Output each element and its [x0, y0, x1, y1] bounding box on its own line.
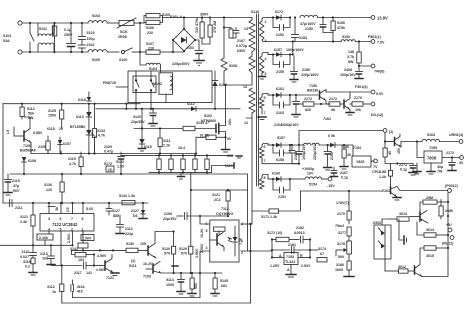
svg-text:1600: 1600	[335, 268, 343, 272]
svg-text:2153: 2153	[299, 36, 307, 40]
svg-text:7162: 7162	[323, 117, 331, 121]
svg-text:7W: 7W	[437, 170, 443, 174]
svg-text:100μ/16V: 100μ/16V	[340, 73, 356, 77]
capacitor C2181	[271, 243, 311, 254]
svg-text:D/L(12): D/L(12)	[371, 113, 384, 117]
transistor Q7106 BU508AF	[6, 117, 43, 154]
snubber branch	[223, 16, 247, 58]
svg-text:2111: 2111	[15, 206, 23, 210]
svg-text:5: 5	[264, 96, 266, 100]
svg-text:3178: 3178	[337, 242, 345, 246]
svg-text:3111: 3111	[163, 139, 171, 143]
svg-text:6172: 6172	[275, 10, 283, 14]
svg-text:6157: 6157	[274, 48, 282, 52]
wire vcc cap branch	[44, 173, 64, 204]
capacitor C2408 100u/16V	[340, 66, 363, 79]
svg-text:6115: 6115	[144, 145, 152, 149]
resistor R2170 10k	[350, 92, 371, 112]
capacitor C2159	[324, 145, 334, 170]
svg-text:2115: 2115	[12, 179, 20, 183]
resistor R3142 104	[70, 247, 95, 262]
svg-text:100μ: 100μ	[87, 37, 95, 41]
svg-text:3133: 3133	[97, 129, 105, 133]
gate resistor R3135 47	[134, 108, 216, 131]
svg-text:4.7k: 4.7k	[69, 162, 76, 166]
svg-text:2102: 2102	[87, 43, 95, 47]
terminal (2)	[383, 129, 394, 134]
wire feedback left	[0, 236, 34, 252]
svg-text:2170: 2170	[337, 212, 345, 216]
resistor R3012	[385, 265, 415, 273]
svg-text:4.7k: 4.7k	[98, 134, 105, 138]
label (2) 5111	[129, 259, 153, 268]
svg-text:150: 150	[397, 148, 401, 154]
svg-text:5123: 5123	[87, 31, 95, 35]
svg-text:R: R	[300, 254, 303, 258]
inductor L5103	[88, 14, 107, 23]
svg-text:3186: 3186	[341, 145, 349, 149]
svg-text:2171: 2171	[399, 163, 407, 167]
wire frame bottom	[62, 302, 251, 304]
svg-text:26V: 26V	[228, 118, 232, 125]
svg-text:+1000μ: +1000μ	[302, 167, 314, 171]
svg-text:1500: 1500	[48, 114, 56, 118]
wire TL431 verticals	[271, 238, 311, 258]
wire 16.2V link	[199, 260, 201, 298]
svg-text:3: 3	[265, 39, 267, 43]
svg-text:0.027: 0.027	[20, 255, 29, 259]
capacitor C2150	[320, 16, 333, 32]
svg-text:6107: 6107	[63, 142, 71, 146]
resistor R3186 30	[340, 144, 351, 169]
resistor R3112	[52, 264, 64, 303]
svg-text:3120: 3120	[133, 115, 141, 119]
resistor R3174 67	[317, 247, 327, 262]
terminal 740(8)	[371, 64, 385, 73]
rectifier D6172 + snubber C2152	[268, 10, 291, 37]
resistor R3133 4.7k	[92, 103, 105, 154]
svg-text:7154: 7154	[353, 146, 361, 150]
wire top rail to thermistor	[107, 22, 119, 24]
wire opto top feed	[382, 219, 390, 225]
svg-text:2182: 2182	[296, 226, 304, 230]
wire rail B	[268, 41, 341, 43]
capacitor C on vcc	[118, 152, 125, 174]
svg-text:220μ/400V: 220μ/400V	[172, 62, 190, 66]
transistor Q upper PNP	[410, 211, 428, 224]
svg-text:5152: 5152	[342, 35, 350, 39]
svg-text:1000: 1000	[166, 283, 174, 287]
svg-text:6161: 6161	[276, 87, 284, 91]
zener D6113	[76, 103, 92, 126]
svg-text:310 470k: 310 470k	[195, 18, 199, 33]
capacitor C2171 0.1u	[399, 163, 417, 175]
svg-text:6: 6	[60, 217, 62, 221]
label 1.06V pin1	[81, 235, 94, 241]
svg-text:6118: 6118	[78, 98, 86, 102]
node 5172 (4)	[104, 162, 114, 172]
svg-text:470k: 470k	[337, 26, 345, 30]
wire W2 to rail B	[292, 40, 294, 55]
wire y250 rail	[72, 249, 127, 251]
svg-text:7106: 7106	[23, 144, 31, 148]
svg-text:Y825: Y825	[356, 160, 364, 164]
resistor R148 3.7k 5W	[347, 42, 371, 68]
inductor L5104	[140, 52, 160, 73]
svg-text:3012: 3012	[398, 265, 406, 269]
ground source	[222, 137, 230, 152]
optocoupler U6303	[373, 221, 391, 271]
svg-text:0.1μ: 0.1μ	[64, 28, 71, 32]
svg-text:2: 2	[265, 57, 267, 61]
svg-text:0.1μ: 0.1μ	[400, 168, 407, 172]
svg-text:5132: 5132	[116, 160, 124, 164]
wire frame right vertical	[249, 223, 251, 303]
wire 350V rail	[168, 17, 186, 19]
resistor R5156 470k	[331, 16, 345, 42]
svg-text:13.8V: 13.8V	[377, 16, 388, 21]
svg-text:5.0V: 5.0V	[376, 92, 384, 96]
svg-text:570: 570	[181, 252, 187, 256]
svg-text:7150: 7150	[309, 84, 317, 88]
svg-text:6158: 6158	[276, 158, 284, 162]
svg-text:2R08: 2R08	[118, 35, 127, 39]
resistor R3125 1500	[48, 103, 64, 128]
svg-text:22μ/35V: 22μ/35V	[163, 217, 177, 221]
svg-text:740(8): 740(8)	[374, 70, 385, 74]
svg-text:3?8 2M: 3?8 2M	[213, 21, 217, 33]
svg-text:0.1μ: 0.1μ	[341, 176, 348, 180]
wire ground bus A	[73, 297, 200, 299]
regulator U7155 7808	[417, 142, 460, 164]
svg-text:30: 30	[347, 153, 351, 157]
svg-text:3014: 3014	[426, 228, 434, 232]
wire y245.3 extension	[33, 244, 73, 246]
resistor R2086	[439, 200, 453, 220]
transistor Q7158	[385, 134, 401, 154]
vertical link	[139, 23, 141, 52]
svg-text:7103: 7103	[143, 275, 151, 279]
resistor R550	[188, 273, 198, 296]
svg-text:6115: 6115	[47, 127, 55, 131]
resistor R5171 1.3k	[252, 209, 300, 224]
wire feedback winding down	[251, 118, 253, 213]
svg-text:S110: S110	[251, 10, 259, 14]
svg-text:5108: 5108	[229, 64, 237, 68]
wire rail A to 13.8V	[318, 17, 371, 19]
rectifier D6161 + snubber C2163	[268, 87, 296, 115]
svg-text:45: 45	[388, 151, 392, 155]
resistor R5145 681	[211, 273, 228, 296]
zener D6108	[22, 157, 36, 174]
svg-text:885: 885	[113, 214, 119, 218]
svg-text:2107: 2107	[237, 39, 245, 43]
transistor Q lower	[415, 262, 449, 277]
svg-text:3115: 3115	[23, 260, 31, 264]
svg-text:6: 6	[264, 145, 266, 149]
svg-text:2150: 2150	[305, 27, 313, 31]
svg-text:10k: 10k	[355, 108, 361, 112]
wire right rail	[447, 192, 449, 262]
inductor L5163	[422, 133, 459, 142]
svg-text:6303: 6303	[373, 221, 381, 225]
svg-text:TL431: TL431	[285, 260, 295, 264]
ground 608	[227, 154, 242, 158]
svg-text:7808: 7808	[427, 156, 437, 161]
svg-text:0.88V: 0.88V	[33, 131, 43, 135]
svg-text:6110: 6110	[225, 164, 233, 168]
capacitor C2113 102	[40, 244, 55, 264]
svg-text:E101-A: E101-A	[170, 15, 183, 19]
capacitor C2108 22u/35V	[163, 212, 229, 221]
svg-text:2158: 2158	[294, 152, 298, 160]
svg-text:47μ: 47μ	[13, 184, 19, 188]
diode D6156	[328, 134, 335, 147]
wire aux rail B	[96, 108, 240, 110]
resistor R3015	[420, 246, 448, 264]
svg-text:2.16k: 2.16k	[39, 236, 48, 240]
svg-text:+5√: +5√	[446, 223, 452, 227]
svg-text:2163: 2163	[276, 111, 284, 115]
svg-text:570: 570	[164, 252, 170, 256]
svg-text:3121: 3121	[212, 193, 220, 197]
svg-text:7: 7	[71, 217, 73, 221]
svg-text:16V: 16V	[307, 172, 314, 176]
svg-text:CQY80NG: CQY80NG	[216, 212, 233, 216]
resistor R bias	[383, 142, 392, 164]
svg-text:5101: 5101	[39, 27, 47, 31]
svg-text:25: 25	[59, 127, 63, 131]
rectifier D6157 + snubber C2155	[268, 48, 292, 74]
svg-text:7112: 7112	[221, 207, 229, 211]
zener D6115	[139, 129, 152, 152]
svg-text:3174: 3174	[318, 247, 326, 251]
snubber resistor bank	[121, 154, 233, 179]
X capacitor 0.1u 250V	[64, 22, 76, 53]
svg-text:3164: 3164	[77, 285, 85, 289]
transistor Q7121	[94, 255, 119, 281]
svg-text:BT169B0: BT169B0	[70, 125, 85, 129]
terminal (RU11)	[442, 236, 454, 246]
svg-text:220: 220	[147, 31, 153, 35]
resistor R5130 105	[112, 242, 146, 253]
resistor R3013	[390, 212, 409, 221]
ground mid	[413, 163, 421, 174]
wire bottom rail left	[22, 51, 88, 53]
svg-text:1.2k: 1.2k	[379, 175, 386, 179]
resistor R2172 pin1	[78, 243, 88, 251]
svg-text:550: 550	[194, 283, 198, 289]
wire node link	[93, 255, 95, 266]
inductor L5152	[341, 35, 371, 43]
capacitor C2105	[38, 136, 50, 154]
junction aux	[150, 108, 152, 110]
source resistor R3136 0.15	[196, 134, 232, 154]
svg-text:6160: 6160	[272, 172, 280, 176]
resistor R2.16k pin4	[37, 234, 53, 245]
svg-text:(RU11): (RU11)	[442, 242, 454, 246]
svg-text:5111: 5111	[129, 264, 137, 268]
svg-text:2155: 2155	[276, 70, 284, 74]
svg-text:5104: 5104	[149, 67, 157, 71]
junction	[139, 22, 141, 24]
wire left edge drop	[2, 104, 4, 203]
junction	[384, 140, 386, 142]
capacitor C2112 222p	[116, 215, 134, 236]
regulator U7154	[344, 145, 374, 167]
primary aux winding pin14-12	[243, 85, 255, 125]
svg-text:1k: 1k	[52, 290, 56, 294]
resistor R5120b 570	[179, 246, 199, 274]
svg-text:3.88: 3.88	[379, 170, 386, 174]
svg-text:222p: 222p	[125, 232, 134, 236]
svg-text:18.4: 18.4	[178, 146, 185, 150]
svg-text:7153: 7153	[286, 255, 294, 259]
svg-text:03A: 03A	[3, 39, 10, 43]
secondary winding 5	[260, 175, 274, 190]
svg-text:2108: 2108	[164, 212, 172, 216]
svg-text:2181: 2181	[288, 243, 296, 247]
wire opto left pins	[200, 216, 209, 260]
svg-text:2156: 2156	[302, 68, 310, 72]
capacitor C2167 0.1u	[331, 167, 349, 180]
svg-text:100μ/160V: 100μ/160V	[286, 48, 304, 52]
svg-text:7155: 7155	[429, 146, 437, 150]
svg-text:25M: 25M	[426, 196, 433, 200]
wire vcc right drop	[247, 174, 249, 190]
resistor R5134 1.3k	[108, 194, 144, 205]
resistor R3014	[417, 222, 448, 237]
svg-text:1.06V: 1.06V	[96, 268, 106, 272]
svg-text:5112: 5112	[27, 107, 35, 111]
svg-text:4: 4	[206, 246, 208, 250]
svg-text:50V: 50V	[13, 189, 20, 193]
svg-text:3112: 3112	[47, 285, 55, 289]
wire bridge AC1 down	[172, 40, 174, 52]
svg-text:3177: 3177	[338, 231, 346, 235]
relay switch block M101	[103, 71, 156, 110]
svg-text:75m2: 75m2	[335, 224, 344, 228]
svg-text:BU508AF: BU508AF	[20, 149, 37, 153]
capacitor C2164 1000u/16V	[274, 94, 300, 127]
svg-text:3121: 3121	[20, 215, 28, 219]
wire top rail left	[22, 22, 88, 24]
secondary winding 2	[260, 53, 274, 77]
capacitor C3164 415	[71, 280, 85, 298]
svg-text:5154: 5154	[309, 183, 317, 187]
svg-text:350V: 350V	[200, 13, 209, 17]
resistor R3121 2C2	[212, 189, 230, 216]
svg-text:2159: 2159	[330, 152, 334, 160]
svg-text:0.2: 0.2	[25, 265, 30, 269]
svg-text:0V: 0V	[227, 137, 232, 141]
svg-text:12: 12	[244, 121, 248, 125]
transformer S110 core	[251, 10, 259, 186]
svg-text:2100: 2100	[104, 145, 112, 149]
capacitor C2110 0.027	[20, 250, 37, 259]
svg-text:SCK: SCK	[120, 30, 128, 34]
capacitor C2100 0.47u	[104, 145, 113, 154]
svg-text:5114: 5114	[166, 278, 174, 282]
inductor 5108	[221, 58, 237, 85]
capacitor C2111	[10, 200, 23, 211]
svg-text:A0013: A0013	[294, 231, 305, 235]
terminal AC line	[18, 21, 22, 25]
svg-text:14: 14	[243, 85, 247, 89]
wire ref line right	[310, 249, 318, 251]
svg-text:5103: 5103	[52, 26, 56, 34]
svg-text:NTP8060: NTP8060	[201, 119, 216, 123]
svg-text:3k: 3k	[55, 207, 59, 211]
svg-text:PN8729: PN8729	[103, 81, 116, 85]
diode D6116	[212, 71, 226, 110]
transistor Q7162	[323, 96, 354, 121]
svg-text:2C2: 2C2	[214, 198, 221, 202]
capacitor C3120 22u/35V	[131, 108, 157, 126]
IC pin stubs bottom	[49, 231, 83, 266]
svg-text:220μ/160V: 220μ/160V	[301, 73, 319, 77]
switch S100	[119, 48, 140, 62]
wire 12V rail	[401, 141, 422, 143]
junction	[139, 51, 141, 53]
svg-text:1.30: 1.30	[117, 165, 124, 169]
resistor R3188 1.2k	[379, 164, 393, 188]
svg-text:2.56V: 2.56V	[200, 243, 204, 253]
wire 7104 collector	[155, 232, 174, 241]
diode D6118	[78, 92, 91, 102]
ground W2 pin4	[259, 73, 266, 79]
inductor 5154	[290, 177, 328, 187]
svg-text:5: 5	[206, 229, 208, 233]
capacitor C1000u	[296, 145, 315, 176]
wire reg out bus	[385, 163, 413, 165]
secondary winding 1	[260, 18, 269, 44]
wire W4 bottom rail	[262, 158, 300, 165]
svg-text:2117: 2117	[74, 271, 82, 275]
bridge rectifier E101	[172, 16, 196, 52]
svg-text:M102: M102	[153, 82, 162, 86]
wire aux jog	[125, 104, 127, 109]
svg-text:2113: 2113	[40, 252, 48, 256]
svg-text:A: A	[287, 268, 290, 272]
svg-text:3127: 3127	[112, 209, 120, 213]
svg-text:7: 7	[264, 111, 266, 115]
resistor R3172 (10)	[267, 231, 299, 242]
diode D6112	[187, 102, 196, 111]
transistor Q7161	[382, 187, 401, 201]
capacitor C2117 141	[55, 262, 95, 275]
ground winding3	[258, 117, 266, 120]
MOSFET Q5102 NTP8060	[201, 85, 232, 137]
svg-text:220μ/16V: 220μ/16V	[313, 144, 317, 160]
wire opto right pins	[241, 224, 272, 251]
terminal AC neutral	[18, 50, 22, 54]
resistor R3115 0.2	[23, 258, 37, 275]
svg-text:5102: 5102	[204, 114, 212, 118]
terminal 13.8V	[371, 16, 388, 21]
svg-text:7161: 7161	[382, 189, 390, 193]
wire 2117 left end	[51, 264, 55, 266]
svg-text:1.5k: 1.5k	[239, 238, 243, 245]
svg-text:120: 120	[46, 188, 52, 192]
svg-text:2086: 2086	[445, 209, 453, 213]
terminal (P0012)	[445, 184, 459, 192]
svg-text:104: 104	[78, 258, 84, 262]
wire aux rail A	[3, 103, 140, 105]
svg-text:2172: 2172	[329, 97, 337, 101]
svg-text:3013: 3013	[399, 212, 407, 216]
svg-text:3015: 3015	[426, 254, 434, 258]
